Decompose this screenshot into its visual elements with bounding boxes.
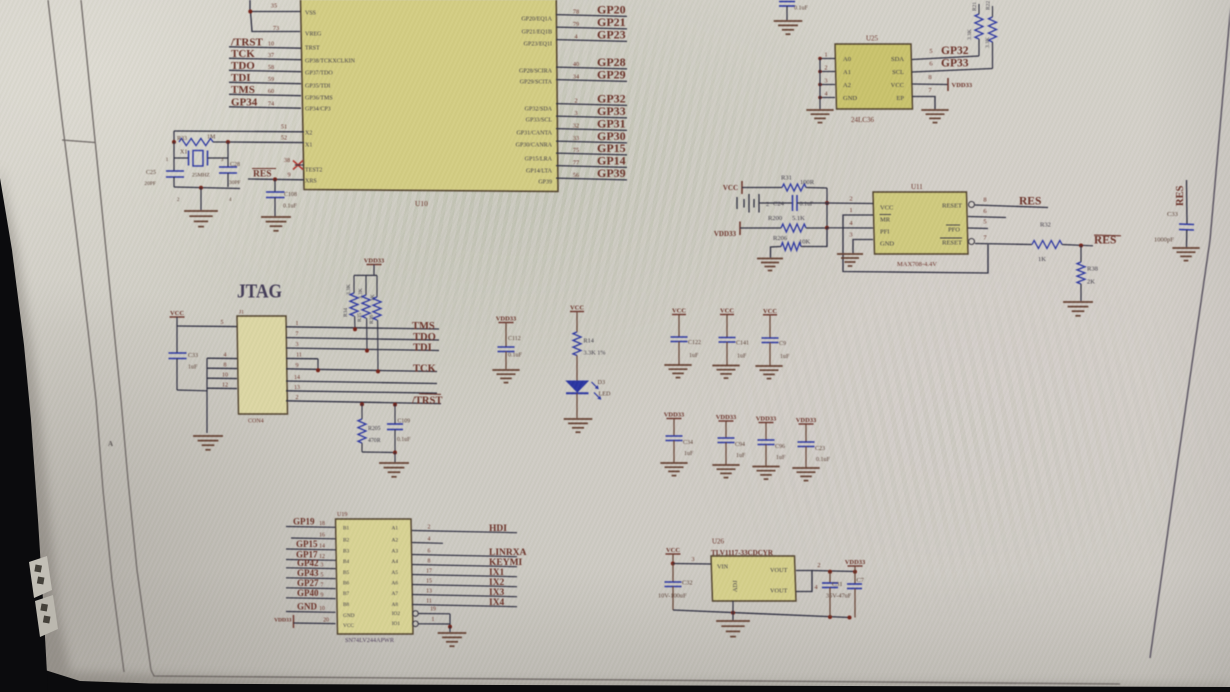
sheet tab 附件	[29, 556, 52, 598]
wire + net label TDI (pin 59)	[229, 72, 301, 84]
ground (U11 pin3)	[837, 254, 863, 266]
wire VOUT rows	[796, 562, 857, 592]
wire J1 pin 14	[286, 375, 437, 384]
wire pullup rail	[354, 274, 377, 276]
ground (C33)	[1172, 248, 1199, 261]
wire U19 pin 4	[412, 537, 443, 544]
IC U10 (main processor) body	[300, 0, 558, 208]
wire J1 pin 11	[286, 352, 320, 372]
wire + net label GP31 (pin 32)	[556, 117, 627, 131]
wire + net label GP20 (pin 78)	[556, 3, 627, 17]
wires J1 left pins 4/8/10/12 + bus	[207, 353, 237, 433]
wire J1 pin 2 net /TRST	[286, 395, 442, 406]
no-ERC cross pin 38	[284, 157, 304, 170]
wire U25 pin8 + power VDD33	[912, 74, 973, 91]
resistor R205 470R	[358, 402, 381, 452]
zone letter A	[108, 440, 113, 448]
ground (R206)	[757, 259, 783, 271]
wire XRS (pin 9)	[248, 172, 304, 180]
wire U19 pin 6 net LINRXA	[412, 548, 527, 558]
wire X1 (pin 52)	[228, 135, 304, 143]
power VDD33 (JTAG pullups)	[364, 258, 385, 275]
U26 pin names	[717, 564, 788, 595]
ground (R38)	[1063, 302, 1093, 316]
power VCC (JTAG)	[170, 310, 185, 317]
wire + net label GP28 (pin 40)	[556, 55, 627, 69]
sheet border bottom line	[151, 670, 1120, 684]
wire VCC to pin5	[177, 317, 237, 327]
wire U26 bottom rail	[673, 610, 852, 620]
wire J1 pin 3 net TDI	[286, 342, 439, 353]
ground (C23)	[792, 468, 819, 481]
wire node to U11 pin2	[827, 196, 873, 204]
power VDD33 (U26 out)	[845, 559, 866, 572]
resistor R35 3.3K	[357, 275, 370, 352]
capacitor C109 0.1uF	[387, 403, 411, 452]
power VDD33 (U19 pin20)	[274, 615, 335, 628]
capacitor C108 0.1uF	[266, 177, 298, 216]
wire + net label GP39 (pin 56)	[556, 166, 627, 180]
wire LED to ground	[576, 393, 578, 418]
wire U19 GP43 (pin 5)	[286, 568, 336, 579]
wire U19 pin1 IO1	[413, 617, 452, 632]
IC U25 24LC36 body	[835, 35, 913, 125]
ground (C122)	[664, 365, 691, 378]
wires U25 left pins 1-4	[818, 53, 835, 110]
wire node to U11 pin4	[827, 220, 873, 228]
wire + net label GP29 (pin 34)	[556, 68, 627, 82]
ground (C96)	[752, 467, 779, 480]
capacitor C94 1uF	[718, 421, 747, 465]
wire crystal bottom	[174, 186, 240, 203]
net label RES (XRS)	[252, 169, 276, 180]
crystal X1 25MHZ	[166, 142, 228, 179]
U10 left-side pin names	[305, 11, 356, 185]
ground (C141)	[712, 366, 739, 379]
wire U25 pin7	[912, 87, 935, 109]
capacitor C7	[847, 572, 864, 618]
resistor R38 2K	[1077, 246, 1098, 302]
resistor R14 3.3K 1%	[573, 312, 606, 382]
ground (U25 pin7)	[921, 110, 948, 123]
wire U11 pin7	[975, 235, 1032, 245]
wire + net label GP33 (pin 3)	[556, 104, 627, 118]
wire U19 pin 8 net KEYMI	[412, 558, 523, 568]
net label RES (overline)	[1094, 235, 1121, 247]
ground (C108)	[261, 217, 291, 231]
ground (U25 left)	[806, 110, 833, 123]
ground (C112)	[492, 370, 519, 383]
connector J1 CON4 body	[237, 310, 288, 425]
wire U11 pin3 GND	[849, 232, 873, 254]
sheet border right line	[1150, 4, 1230, 658]
resistor R33 1M	[172, 131, 230, 146]
IC U11 MAX708 body	[873, 183, 968, 268]
capacitor C33 1000pF	[1154, 211, 1194, 247]
capacitor C28 30PF	[219, 158, 241, 187]
power VDD33 (C112)	[496, 316, 517, 323]
capacitor C24 0.1uF (battery style)	[737, 194, 827, 213]
wire U19 pin 17 net IX1	[412, 568, 517, 578]
wire + net label TMS (pin 60)	[229, 84, 301, 96]
capacitor C96 1uF	[758, 423, 787, 467]
ground (LED)	[564, 419, 593, 432]
wire U19 pin 13 net IX3	[412, 588, 517, 598]
wire + net label GP15 (pin 75)	[556, 141, 627, 155]
wire + net label TDO (pin 58)	[229, 60, 301, 72]
wire U11 pin5	[968, 219, 988, 229]
sheet tab 注释	[35, 595, 58, 637]
wire + net label TCK (pin 37)	[229, 48, 301, 60]
wire U19 pin19 IO2	[413, 607, 450, 628]
monitor bezel left wedge	[0, 178, 48, 692]
ground (U26)	[716, 613, 750, 637]
power VDD33 (C23)	[796, 417, 817, 424]
wire U19 pin 2 net HDI	[412, 524, 517, 534]
wire U19 GP40 (pin 9)	[286, 588, 336, 599]
U10 right-side pin names	[516, 17, 553, 186]
wire + net label GP14 (pin 77)	[556, 154, 627, 168]
wire U19 GND (pin 10)	[286, 602, 336, 613]
wire R31 to node	[825, 188, 829, 205]
wire U19 GP42 (pin 3)	[286, 558, 336, 569]
wire J1 pin 1 net TMS	[286, 321, 439, 332]
capacitor C112 0.1uF	[498, 323, 523, 370]
capacitor C23 0.1uF	[798, 424, 831, 468]
wire U11 pin1 MR loop	[843, 207, 988, 273]
ground (C9)	[755, 366, 782, 379]
wire J1 pin 9 net TCK	[286, 363, 437, 374]
IC U19 SN74LV244 body	[336, 512, 414, 644]
wire node to vertical	[826, 203, 828, 228]
capacitor C32 10V-100uF	[658, 564, 693, 611]
resistor R34 3.3K	[343, 275, 358, 331]
power VCC (C9)	[763, 308, 777, 315]
capacitor C122 1uF	[671, 315, 702, 366]
wire + net label GP34 (pin 74)	[229, 97, 301, 109]
resistor R21 3.3K	[967, 2, 983, 56]
U19 pin names	[343, 526, 400, 630]
ground (C34)	[660, 463, 687, 476]
overline on /TRST	[419, 393, 441, 396]
section title JTAG	[237, 281, 282, 303]
capacitor C31 35V-47uF	[822, 572, 852, 617]
resistor R36 1K	[369, 275, 381, 373]
ground (top cap)	[774, 21, 803, 34]
resistor R22 3.3K	[985, 1, 997, 69]
bezel shadow on paper	[0, 165, 1230, 692]
wire U19 pin (pin 16)	[291, 533, 336, 539]
zone divider tick	[62, 140, 95, 143]
wire + net label GP32 (pin 2)	[556, 92, 627, 106]
wire U11 pin8 + net label RES	[975, 196, 1048, 208]
power VCC (R14)	[570, 305, 584, 312]
wire + net label /TRST (pin 10)	[229, 37, 301, 49]
resistor R200 5.1K	[740, 215, 829, 232]
U25 pin names	[843, 56, 904, 102]
capacitor C9 1uF	[762, 315, 791, 366]
power VDD33 (U11 PFI)	[714, 222, 740, 239]
capacitor C33 1uF (JTAG)	[169, 326, 208, 391]
wire X2 (pin 51)	[174, 124, 304, 132]
power VDD33 (C96)	[756, 416, 777, 423]
wire U19 GP15 (pin 14)	[286, 539, 336, 550]
wire J1 pin 7 net TDO	[286, 332, 439, 343]
wire U19 pin 11 net IX4	[412, 598, 517, 608]
power VCC (U26)	[666, 547, 681, 554]
IC U26 TLV1117 body	[711, 538, 796, 602]
wire U19 GP27 (pin 7)	[286, 578, 336, 589]
wire U19 GP19 (pin 18)	[286, 517, 336, 528]
wire U25 pin5 + net GP32	[912, 45, 979, 60]
wire VCC to VIN	[671, 554, 711, 566]
capacitor C25 20PF	[144, 158, 184, 187]
wire + net label GP23 (pin 4)	[556, 28, 627, 42]
resistor R32 1K	[1032, 222, 1093, 264]
ground (J1)	[193, 436, 223, 450]
power VCC (C122)	[672, 308, 686, 315]
wire J1 pin 13	[286, 385, 437, 393]
ground (R205/C109)	[379, 463, 409, 477]
power VCC (C141)	[720, 308, 734, 315]
resistor R206 10K	[771, 228, 828, 258]
wire U19 pin 15 net IX2	[412, 578, 517, 588]
LED D3	[566, 379, 611, 400]
sheet border left inner line	[81, 0, 151, 670]
wire + net label GP21 (pin 79)	[556, 15, 627, 29]
power VCC (U11)	[723, 181, 742, 194]
wire U11 pin6	[968, 208, 1006, 218]
wire + net label GP30 (pin 33)	[556, 129, 627, 143]
resistor R31 100R	[742, 175, 827, 192]
power VDD33 (C94)	[716, 414, 737, 421]
capacitor C34 1uF	[666, 419, 695, 464]
wire pins 35/73 (VSS-VREG tie)	[248, 0, 300, 32]
ground (C94)	[712, 465, 739, 478]
net label RES (vertical)	[1175, 180, 1187, 224]
capacitor 0.1uF (top, U25 area)	[779, 2, 809, 21]
power VDD33 (C34)	[664, 412, 685, 419]
capacitor C141 1uF	[719, 315, 750, 366]
sheet border left outer line	[48, 0, 124, 672]
wire U25 pin6 + net GP33	[912, 58, 993, 73]
ground (crystal)	[184, 188, 218, 227]
wire U19 GP17 (pin 12)	[286, 550, 336, 561]
wire ADJ to rail	[732, 601, 734, 613]
monitor bezel bottom strip	[0, 670, 1230, 692]
U11 pin names + inversion circles	[880, 202, 975, 248]
ground (U19)	[438, 633, 467, 646]
wire R205-C109 bottom	[362, 451, 397, 463]
